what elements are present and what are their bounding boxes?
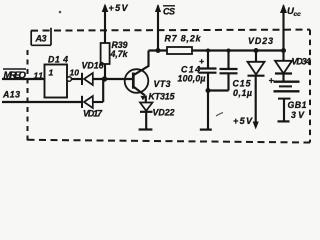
svg-text:VD22: VD22 [153,108,175,118]
svg-text:0,1µ: 0,1µ [233,88,252,98]
svg-text:VT3: VT3 [154,79,171,89]
svg-text:+5V: +5V [233,116,253,126]
svg-text:+: + [269,76,275,86]
svg-text:VD23: VD23 [248,36,273,46]
svg-text:R7 8,2k: R7 8,2k [165,34,202,44]
svg-text:A13: A13 [2,90,20,100]
svg-text:D1 4: D1 4 [48,55,68,65]
svg-text:cc: cc [294,11,302,18]
svg-text:11: 11 [34,71,44,81]
svg-text:CS: CS [163,7,175,17]
svg-text:+5V: +5V [109,3,129,13]
svg-text:1: 1 [49,68,54,78]
svg-text:VD34: VD34 [292,57,311,67]
svg-text:4,7k: 4,7k [110,49,129,59]
svg-text:3V: 3V [291,110,305,120]
svg-text:GB1: GB1 [288,100,307,110]
svg-text:MREQ: MREQ [4,70,27,81]
svg-text:100,0µ: 100,0µ [178,74,206,84]
svg-text:VD17: VD17 [83,109,103,119]
svg-text:KT315: KT315 [149,92,175,102]
svg-text:10: 10 [70,68,80,78]
svg-text:A3: A3 [35,34,47,44]
